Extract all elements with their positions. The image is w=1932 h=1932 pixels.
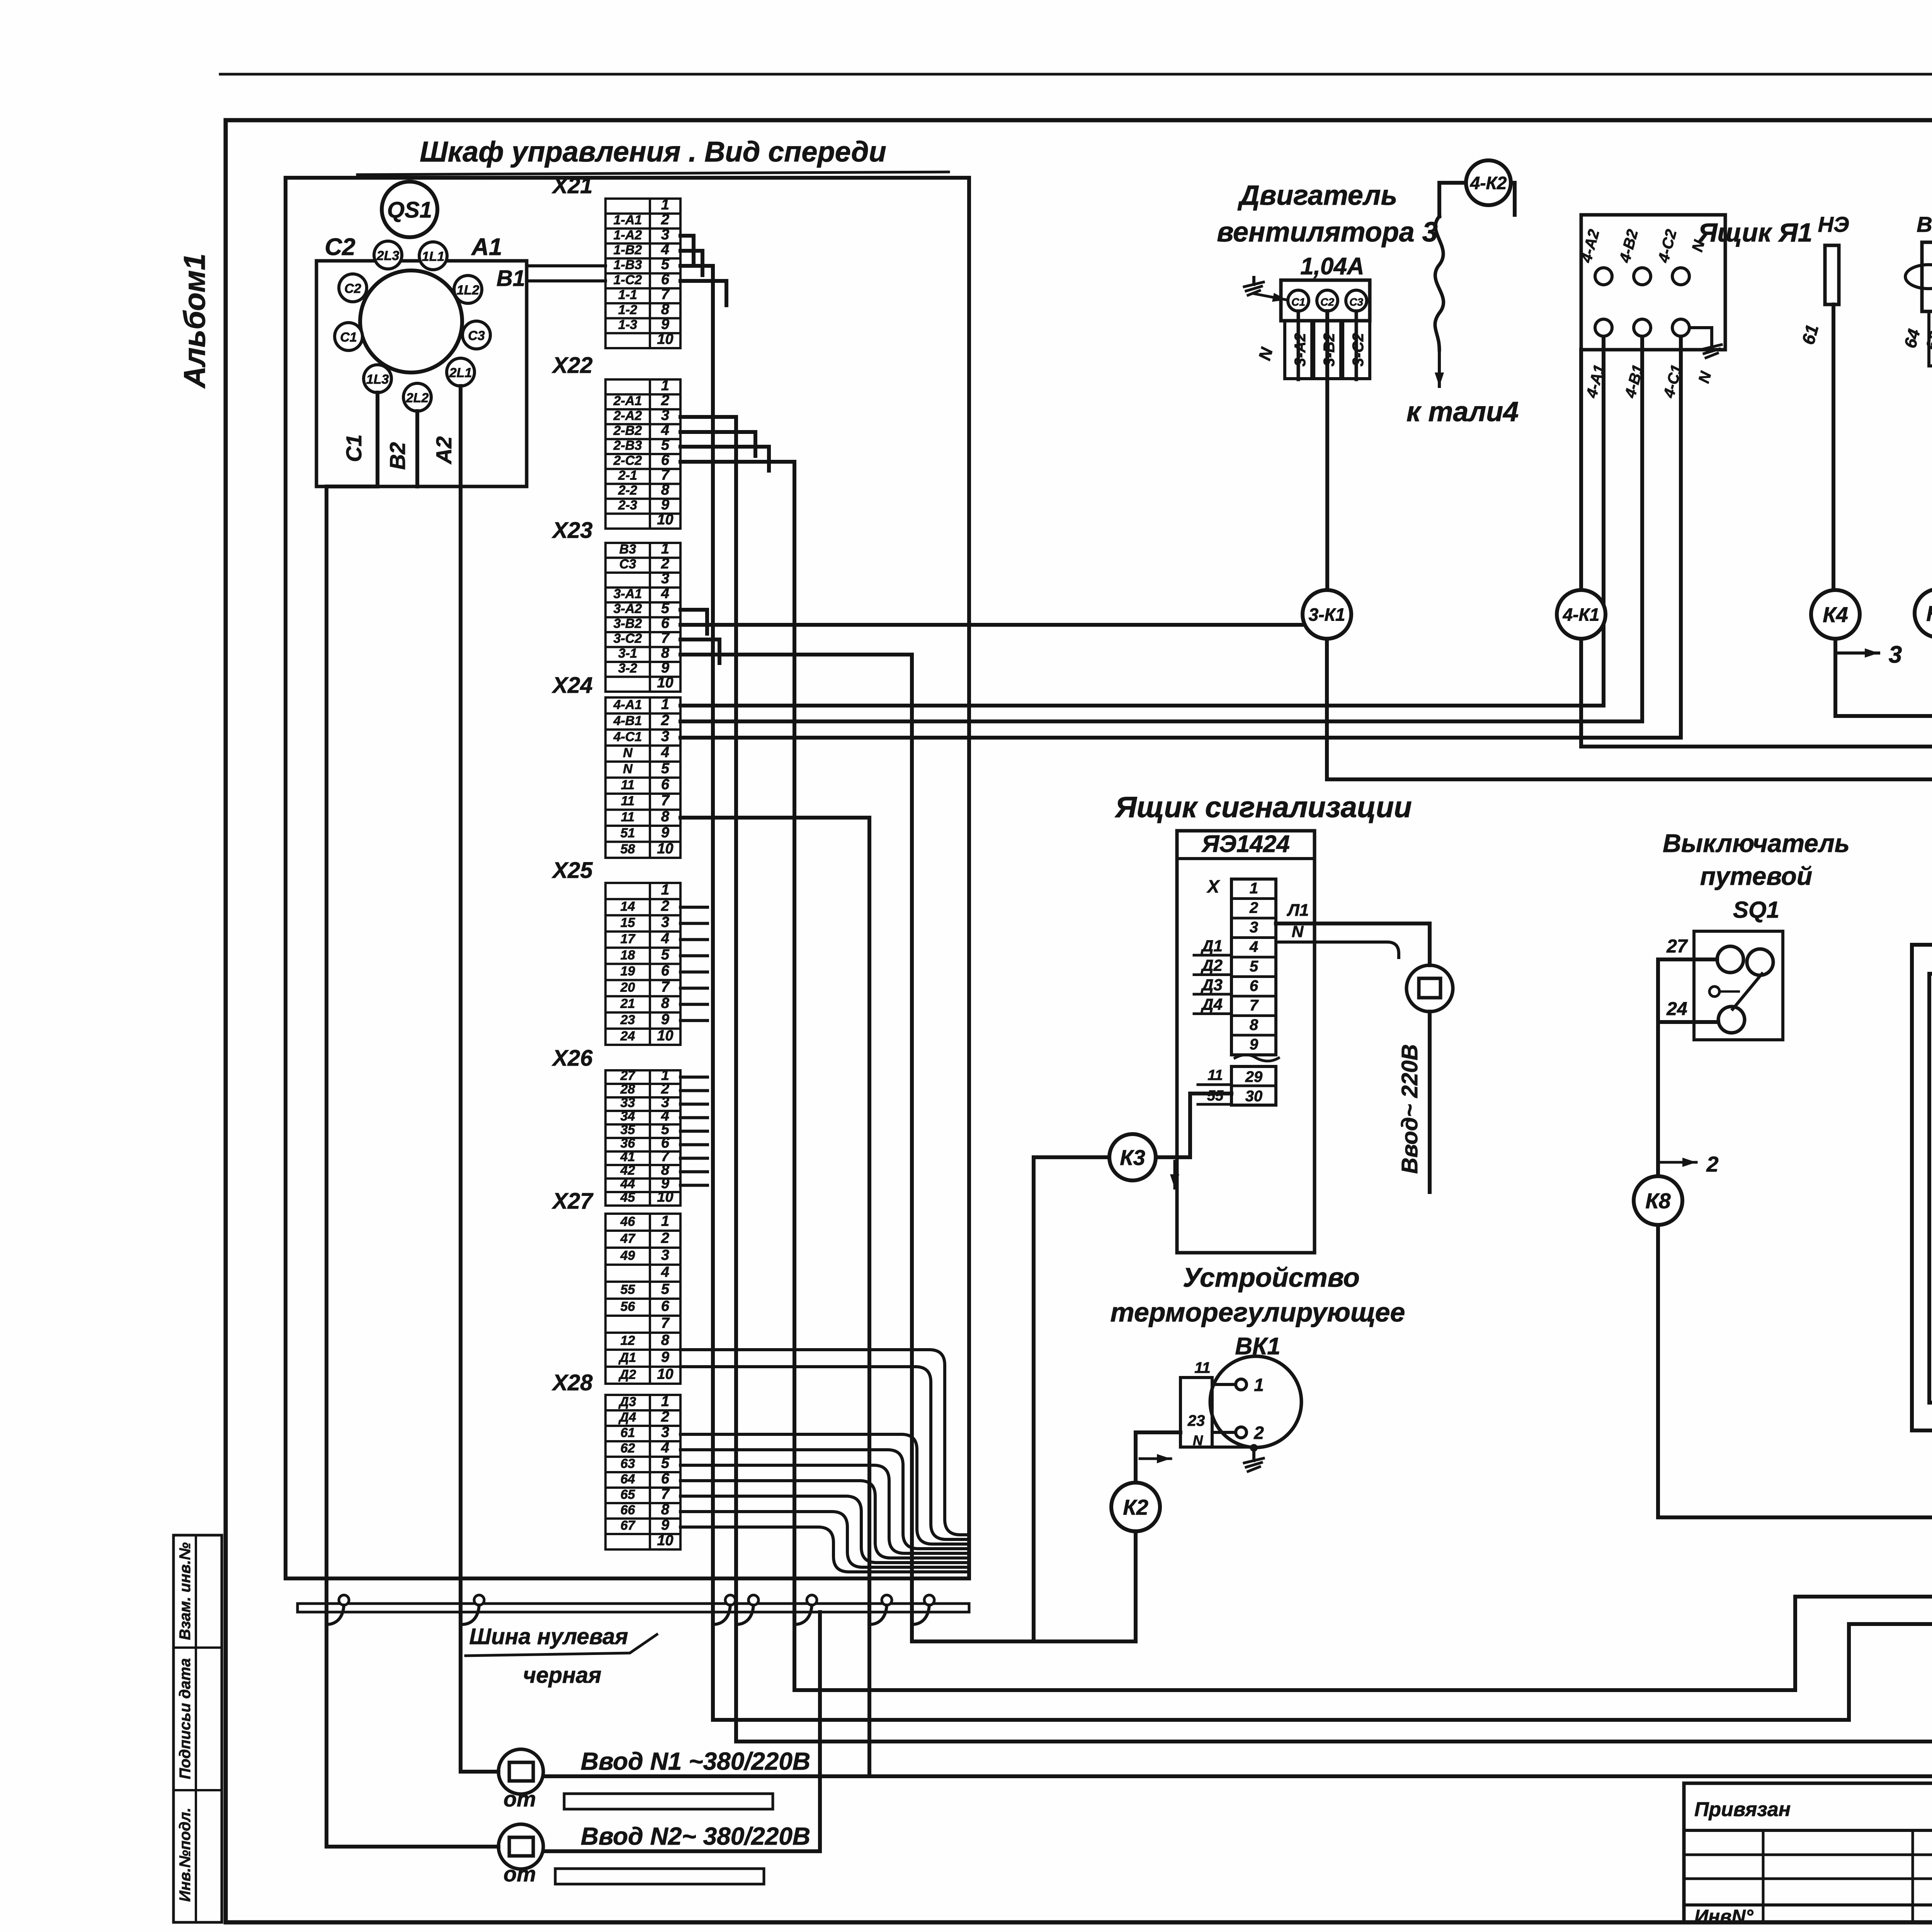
wire 2-К2 down staircase to cabinet xyxy=(713,1549,1932,1720)
svg-text:4-К1: 4-К1 xyxy=(1563,605,1600,625)
svg-text:5: 5 xyxy=(661,1281,670,1298)
signal box terminal strip rows 1-9 xyxy=(1231,879,1276,1055)
svg-text:11: 11 xyxy=(621,810,634,824)
bus tap circle at 1240 xyxy=(474,1595,484,1605)
svg-text:2-С2: 2-С2 xyxy=(613,453,642,468)
svg-text:2-В2: 2-В2 xyxy=(613,423,642,438)
svg-text:2: 2 xyxy=(1249,900,1258,917)
svg-text:2: 2 xyxy=(1706,1152,1718,1176)
svg-text:вентилятора 3: вентилятора 3 xyxy=(1217,217,1438,248)
svg-text:1: 1 xyxy=(661,541,669,557)
svg-text:1-3: 1-3 xyxy=(618,317,637,332)
svg-text:55: 55 xyxy=(1207,1088,1224,1104)
terminal block X26 xyxy=(551,1046,680,1206)
wire X24.3 to box Я1 4-С1 xyxy=(680,333,1681,738)
short stubs X26 xyxy=(680,1076,707,1079)
hoist cable arrow xyxy=(1438,350,1441,386)
svg-text:1: 1 xyxy=(661,197,669,213)
wire QS1 2L1 stem xyxy=(459,386,463,486)
wire К8 down to КК xyxy=(1658,1225,1932,1517)
svg-text:3: 3 xyxy=(1250,919,1258,936)
svg-text:66: 66 xyxy=(621,1503,636,1517)
svg-text:6: 6 xyxy=(661,1298,670,1315)
wire X21.6 stub xyxy=(680,281,726,305)
svg-text:61: 61 xyxy=(621,1425,635,1440)
svg-text:ЯЭ1424: ЯЭ1424 xyxy=(1201,831,1290,857)
svg-text:1-1: 1-1 xyxy=(618,287,637,302)
svg-text:2-3: 2-3 xyxy=(618,498,637,513)
svg-text:8: 8 xyxy=(661,482,670,498)
svg-text:А1: А1 xyxy=(471,234,502,260)
sensor В1 xyxy=(1901,212,1932,366)
svg-text:2-В3: 2-В3 xyxy=(613,438,642,453)
svg-text:4: 4 xyxy=(1249,939,1258,956)
svg-text:Ввод N2~ 380/220В: Ввод N2~ 380/220В xyxy=(581,1822,810,1850)
svg-text:6: 6 xyxy=(661,452,670,468)
svg-text:1: 1 xyxy=(661,378,669,394)
bus tap hook at 1890 xyxy=(713,1605,730,1624)
svg-text:3-А2: 3-А2 xyxy=(1292,333,1309,367)
svg-text:4: 4 xyxy=(661,1264,669,1281)
svg-text:6: 6 xyxy=(1250,978,1259,995)
svg-text:15: 15 xyxy=(621,915,636,930)
fan motor ground xyxy=(1244,277,1264,295)
svg-text:1-В3: 1-В3 xyxy=(614,258,642,272)
wire X24.1 to box Я1 4-А1 xyxy=(680,333,1604,706)
QS1 terminal 1L2 xyxy=(454,276,482,303)
svg-text:4: 4 xyxy=(661,744,669,760)
svg-text:7: 7 xyxy=(661,286,670,303)
cable mark rectangle N1 xyxy=(564,1794,773,1809)
svg-text:4-С1: 4-С1 xyxy=(613,730,642,744)
wire fan motor C2 down to 3-К1 xyxy=(1325,311,1329,590)
terminal block X28 xyxy=(551,1370,680,1549)
QS1 terminal C2 xyxy=(339,274,367,302)
svg-text:3: 3 xyxy=(661,728,669,745)
svg-text:3-1: 3-1 xyxy=(618,646,637,661)
svg-text:9: 9 xyxy=(661,1349,669,1366)
Я1 terminal top 2 xyxy=(1634,268,1651,285)
wire X21.3 stub xyxy=(680,236,694,263)
svg-text:28: 28 xyxy=(620,1082,635,1097)
svg-text:8: 8 xyxy=(1250,1017,1259,1034)
svg-text:Привязан: Привязан xyxy=(1694,1798,1791,1821)
svg-text:Взам. инв.№: Взам. инв.№ xyxy=(177,1542,194,1640)
svg-text:В1: В1 xyxy=(1917,212,1932,236)
svg-text:к тали4: к тали4 xyxy=(1406,396,1519,427)
device ВК1 circle xyxy=(1210,1356,1301,1447)
svg-text:1: 1 xyxy=(661,1213,669,1230)
svg-text:3: 3 xyxy=(661,407,669,423)
svg-text:34: 34 xyxy=(621,1109,635,1124)
arrow at К3 xyxy=(1173,1161,1176,1188)
svg-text:24: 24 xyxy=(620,1029,635,1043)
input N1 symbol xyxy=(498,1749,543,1794)
SQ1 contact circles xyxy=(1717,946,1743,973)
svg-text:ИнвN°: ИнвN° xyxy=(1694,1906,1753,1927)
svg-text:2: 2 xyxy=(661,898,669,914)
QS1 terminal C1 xyxy=(335,323,362,350)
svg-text:35: 35 xyxy=(621,1122,636,1137)
svg-text:41: 41 xyxy=(620,1150,635,1164)
cabinet outline xyxy=(286,178,969,1578)
svg-text:X24: X24 xyxy=(551,673,592,698)
svg-text:Д2: Д2 xyxy=(618,1367,636,1382)
svg-text:9: 9 xyxy=(661,825,669,841)
wire К2 up to ВК1 xyxy=(1136,1432,1180,1482)
svg-text:10: 10 xyxy=(657,331,673,347)
wire 11 to terminal 1 xyxy=(1212,1383,1236,1386)
svg-text:9: 9 xyxy=(661,497,669,513)
svg-text:4-В1: 4-В1 xyxy=(613,713,642,728)
svg-text:N: N xyxy=(623,745,633,760)
ВК1 terminal 1 xyxy=(1236,1379,1247,1390)
svg-text:6: 6 xyxy=(661,1471,670,1487)
svg-text:1-С2: 1-С2 xyxy=(614,272,642,287)
svg-text:9: 9 xyxy=(661,660,669,676)
bus tap circle at 2405 xyxy=(924,1595,934,1605)
svg-text:С1: С1 xyxy=(342,434,366,462)
fan motor terminal С2 xyxy=(1317,290,1338,311)
switch QS1 designator circle xyxy=(382,182,437,237)
svg-text:1: 1 xyxy=(661,1393,669,1410)
svg-text:В3: В3 xyxy=(619,542,636,557)
svg-text:Х: Х xyxy=(1206,876,1220,896)
relay К4 xyxy=(1811,590,1860,639)
svg-text:2: 2 xyxy=(661,392,669,408)
svg-text:2: 2 xyxy=(661,556,669,572)
svg-text:30: 30 xyxy=(1245,1088,1263,1105)
relay 4-К2 xyxy=(1466,160,1511,205)
svg-text:Альбом1: Альбом1 xyxy=(177,253,211,389)
fan motor wire label 3-В2 xyxy=(1314,321,1341,379)
КК inner border wire xyxy=(1929,945,1932,1431)
svg-text:С2: С2 xyxy=(1320,296,1334,308)
svg-text:Д1: Д1 xyxy=(618,1350,636,1365)
svg-text:К4: К4 xyxy=(1823,602,1848,627)
signal box outline xyxy=(1177,831,1315,1253)
svg-text:3-С2: 3-С2 xyxy=(614,631,642,646)
bus tap circle at 1890 xyxy=(725,1595,735,1605)
svg-text:N: N xyxy=(1193,1432,1203,1448)
svg-text:1,04А: 1,04А xyxy=(1300,253,1364,280)
wire N to ground xyxy=(1212,1447,1254,1454)
QS1 terminal 2L1 xyxy=(447,358,474,386)
svg-text:67: 67 xyxy=(621,1518,636,1533)
svg-text:8: 8 xyxy=(661,645,670,661)
svg-text:Двигатель: Двигатель xyxy=(1237,180,1398,211)
hoist cable squiggle xyxy=(1435,216,1444,350)
bus tap circle at 1950 xyxy=(748,1595,759,1605)
wire X22.5 stub xyxy=(680,447,769,471)
relay К3 xyxy=(1109,1134,1156,1180)
wire К3 left to bottom rail xyxy=(1034,1157,1109,1641)
wire X23.6 to fan motor 3-В2 junction xyxy=(680,623,1327,627)
svg-text:49: 49 xyxy=(620,1248,635,1263)
svg-text:7: 7 xyxy=(661,467,670,483)
wire SQ1 down to К8 xyxy=(1656,959,1660,1176)
svg-text:1L3: 1L3 xyxy=(366,372,389,387)
svg-text:17: 17 xyxy=(621,932,636,946)
wire X21.4 stub xyxy=(680,251,702,275)
svg-text:1: 1 xyxy=(1254,1375,1264,1395)
svg-text:черная: черная xyxy=(523,1663,602,1688)
svg-text:2: 2 xyxy=(661,212,669,228)
svg-text:3-С2: 3-С2 xyxy=(1350,333,1367,367)
svg-text:4: 4 xyxy=(661,930,669,947)
svg-text:3: 3 xyxy=(661,1247,669,1264)
svg-text:7: 7 xyxy=(661,979,670,995)
QS1 terminal C3 xyxy=(463,321,490,349)
svg-text:В1: В1 xyxy=(497,266,525,291)
svg-text:Д1: Д1 xyxy=(1201,937,1223,955)
fan motor terminal С1 xyxy=(1288,290,1309,311)
220V input symbol xyxy=(1406,965,1453,1012)
wire К2 down to rail xyxy=(1134,1531,1138,1641)
svg-text:65: 65 xyxy=(621,1487,636,1502)
svg-text:НЭ: НЭ xyxy=(1818,212,1849,236)
svg-text:2: 2 xyxy=(661,712,669,728)
svg-text:Ввод N1 ~380/220В: Ввод N1 ~380/220В xyxy=(581,1747,810,1775)
stamp Привязан table xyxy=(1684,1783,1932,1927)
svg-text:2-А1: 2-А1 xyxy=(613,393,642,408)
bus tap hook at 1240 xyxy=(462,1605,479,1624)
svg-text:3-К1: 3-К1 xyxy=(1309,605,1345,625)
svg-text:3: 3 xyxy=(1889,641,1902,668)
svg-text:4: 4 xyxy=(661,585,669,602)
svg-text:терморегулирующее: терморегулирующее xyxy=(1111,1297,1405,1327)
wire X21.5 down feeder to 2-К2 rail xyxy=(680,266,713,1720)
signal box header ЯЭ1424 xyxy=(1177,857,1315,860)
svg-text:QS1: QS1 xyxy=(387,197,432,223)
svg-text:4-А1: 4-А1 xyxy=(613,697,642,712)
svg-text:X25: X25 xyxy=(551,858,593,883)
svg-text:7: 7 xyxy=(661,630,670,646)
svg-text:К2: К2 xyxy=(1123,1495,1148,1519)
svg-text:1-В2: 1-В2 xyxy=(614,243,642,257)
wire QS1 2L2 stem xyxy=(415,411,419,486)
wire QS1 right feeder to input N1 xyxy=(461,486,498,1772)
svg-text:64: 64 xyxy=(621,1472,635,1486)
svg-text:6: 6 xyxy=(661,615,670,631)
Я1 terminal bottom 1 xyxy=(1595,319,1612,336)
svg-text:К3: К3 xyxy=(1120,1145,1145,1170)
svg-text:X28: X28 xyxy=(551,1370,593,1395)
svg-text:6: 6 xyxy=(661,776,670,793)
svg-text:Шкаф управления . Вид спере: Шкаф управления . Вид спереди xyxy=(420,136,886,168)
QS1 mounting plate xyxy=(316,261,527,486)
wire К4 to КК xyxy=(1835,639,1932,944)
svg-text:Ящик сигнализации: Ящик сигнализации xyxy=(1114,791,1412,824)
terminal block X25 xyxy=(551,858,680,1045)
fan motor wire label 3-С2 xyxy=(1343,321,1370,379)
svg-text:7: 7 xyxy=(1250,997,1259,1014)
svg-text:2-А2: 2-А2 xyxy=(613,408,642,423)
wire X22.4 stub xyxy=(680,432,755,456)
svg-text:23: 23 xyxy=(1187,1412,1205,1429)
input N2 symbol xyxy=(498,1824,543,1869)
svg-text:К5: К5 xyxy=(1926,601,1932,626)
svg-text:1L1: 1L1 xyxy=(422,249,445,264)
svg-text:6: 6 xyxy=(661,271,670,287)
Я1 terminal top 3 xyxy=(1672,268,1689,285)
svg-text:14: 14 xyxy=(621,899,635,914)
relay К2 xyxy=(1111,1483,1160,1531)
arrow 2 at К8 xyxy=(1658,1161,1696,1164)
svg-text:Д4: Д4 xyxy=(1201,995,1223,1014)
svg-text:4-К2: 4-К2 xyxy=(1470,173,1507,193)
svg-text:8: 8 xyxy=(661,1502,670,1518)
junction box КК outline xyxy=(1912,945,1932,1430)
svg-text:23: 23 xyxy=(620,1012,635,1027)
svg-text:63: 63 xyxy=(621,1456,635,1471)
svg-text:Д3: Д3 xyxy=(618,1395,636,1409)
arrow at К2 xyxy=(1140,1458,1171,1460)
svg-text:20: 20 xyxy=(620,980,635,995)
svg-text:18: 18 xyxy=(621,948,635,963)
svg-text:24: 24 xyxy=(1666,999,1687,1019)
svg-text:N: N xyxy=(623,762,633,776)
bus tap circle at 2101 xyxy=(807,1595,817,1605)
bottom rail К3-К2 xyxy=(912,1639,1136,1643)
svg-text:12: 12 xyxy=(621,1333,635,1348)
bus tap hook at 890 xyxy=(327,1605,344,1624)
svg-text:5: 5 xyxy=(661,437,670,453)
bus tap circle at 2295 xyxy=(882,1595,892,1605)
svg-text:58: 58 xyxy=(621,842,635,856)
svg-text:А2: А2 xyxy=(432,436,456,465)
svg-text:К8: К8 xyxy=(1645,1189,1671,1213)
wire X23.8 down feeder to К3/К2 rail xyxy=(680,655,912,1641)
svg-text:2: 2 xyxy=(661,1409,669,1425)
SQ1 actuator xyxy=(1709,986,1719,997)
bus tap hook at 2101 xyxy=(794,1605,812,1624)
svg-text:2: 2 xyxy=(661,1230,669,1247)
svg-text:Устройство: Устройство xyxy=(1183,1262,1360,1293)
svg-text:3-А2: 3-А2 xyxy=(614,602,642,616)
svg-text:Д2: Д2 xyxy=(1201,956,1223,975)
svg-text:11: 11 xyxy=(621,777,634,792)
svg-text:С2: С2 xyxy=(325,234,355,260)
terminal block X24 xyxy=(551,673,680,858)
neutral bus bar (шина нулевая) xyxy=(298,1604,969,1612)
svg-text:X27: X27 xyxy=(551,1189,594,1214)
svg-text:SQ1: SQ1 xyxy=(1733,897,1779,923)
labels Д1-Д4 xyxy=(1194,937,1231,955)
svg-text:1-А1: 1-А1 xyxy=(614,213,642,228)
svg-text:3: 3 xyxy=(661,571,669,587)
svg-text:5: 5 xyxy=(661,947,670,963)
svg-text:7: 7 xyxy=(661,793,670,809)
svg-text:2-2: 2-2 xyxy=(618,483,637,498)
svg-text:C1: C1 xyxy=(340,330,357,345)
svg-text:С3: С3 xyxy=(619,557,636,571)
svg-text:В2: В2 xyxy=(385,442,410,470)
title underline xyxy=(357,172,949,175)
svg-text:2L2: 2L2 xyxy=(406,391,429,405)
svg-text:9: 9 xyxy=(1250,1036,1259,1053)
wire X23.7 stub xyxy=(680,639,719,663)
svg-text:C3: C3 xyxy=(468,328,485,343)
svg-text:3: 3 xyxy=(661,1424,669,1440)
relay 3-К1 xyxy=(1303,590,1351,639)
svg-text:7: 7 xyxy=(661,1486,670,1502)
svg-text:1: 1 xyxy=(1250,880,1258,897)
svg-text:9: 9 xyxy=(661,1517,669,1533)
wire 27 xyxy=(1658,957,1717,961)
svg-text:1-А2: 1-А2 xyxy=(614,228,642,242)
svg-text:27: 27 xyxy=(620,1068,636,1083)
svg-text:36: 36 xyxy=(621,1136,636,1151)
svg-text:Шина нулевая: Шина нулевая xyxy=(469,1624,628,1649)
svg-text:51: 51 xyxy=(621,826,635,840)
svg-text:8: 8 xyxy=(661,1332,670,1349)
wire X24.2 to box Я1 4-В1 xyxy=(680,333,1642,721)
svg-text:5: 5 xyxy=(661,760,670,777)
svg-text:3: 3 xyxy=(661,914,669,930)
svg-text:1: 1 xyxy=(661,882,669,898)
svg-text:56: 56 xyxy=(621,1299,636,1314)
bus tap circle at 890 xyxy=(339,1595,349,1605)
cable mark rectangle N2 xyxy=(555,1869,764,1884)
terminal block X27 xyxy=(551,1189,680,1384)
svg-text:Выключатель: Выключатель xyxy=(1663,829,1850,857)
fan motor C1 stem xyxy=(1297,311,1300,379)
wire 4-К2 left xyxy=(1439,183,1466,216)
svg-text:от: от xyxy=(503,1862,536,1886)
svg-text:от: от xyxy=(503,1787,536,1811)
box Я1 outline xyxy=(1581,215,1725,350)
wire НЭ to К4 xyxy=(1832,304,1835,590)
wire bundle Д1..Д4 and 61..67 xyxy=(680,1350,969,1572)
svg-text:8: 8 xyxy=(661,808,670,825)
svg-text:8: 8 xyxy=(661,995,670,1011)
bus tap hook at 2405 xyxy=(912,1605,929,1624)
Я1 terminal bottom 2 xyxy=(1634,319,1651,336)
svg-text:46: 46 xyxy=(620,1214,636,1229)
svg-text:3-2: 3-2 xyxy=(618,661,637,676)
svg-text:10: 10 xyxy=(657,840,673,857)
QS1 terminal 1L1 xyxy=(419,242,447,270)
bus tap hook at 1950 xyxy=(736,1605,753,1624)
wire 4-К2 right to Я1 xyxy=(1511,183,1515,215)
svg-text:C2: C2 xyxy=(344,281,361,296)
fan motor wire label 3-А2 xyxy=(1285,321,1312,379)
svg-text:Д3: Д3 xyxy=(1201,976,1223,994)
terminal block X22 xyxy=(551,353,680,529)
svg-text:6: 6 xyxy=(661,963,670,979)
wire Л1/N to 220V input xyxy=(1276,923,1430,965)
svg-text:11: 11 xyxy=(621,794,634,808)
svg-text:4: 4 xyxy=(661,422,669,439)
svg-text:3: 3 xyxy=(661,226,669,243)
svg-text:2: 2 xyxy=(1253,1423,1264,1443)
wire Я1 down to 4-К1 xyxy=(1579,350,1583,590)
Я1 terminal bottom 3 xyxy=(1672,319,1689,336)
svg-text:5: 5 xyxy=(661,1455,670,1471)
svg-text:10: 10 xyxy=(657,675,673,691)
left margin column boxes xyxy=(173,1535,222,1922)
QS1 switch body circle xyxy=(360,270,462,372)
wire 1-К2 down staircase to cabinet xyxy=(736,1549,1932,1742)
terminal block X21 xyxy=(551,173,680,348)
svg-text:42: 42 xyxy=(620,1163,635,1178)
limit switch SQ1 box xyxy=(1694,931,1783,1040)
ВК1 connection box xyxy=(1180,1359,1212,1448)
wire X24.8 down feeder to input N1 line xyxy=(680,818,869,1776)
svg-text:Ввод~ 220В: Ввод~ 220В xyxy=(1397,1044,1422,1173)
wire К1 down staircase to cabinet xyxy=(794,1549,1932,1690)
